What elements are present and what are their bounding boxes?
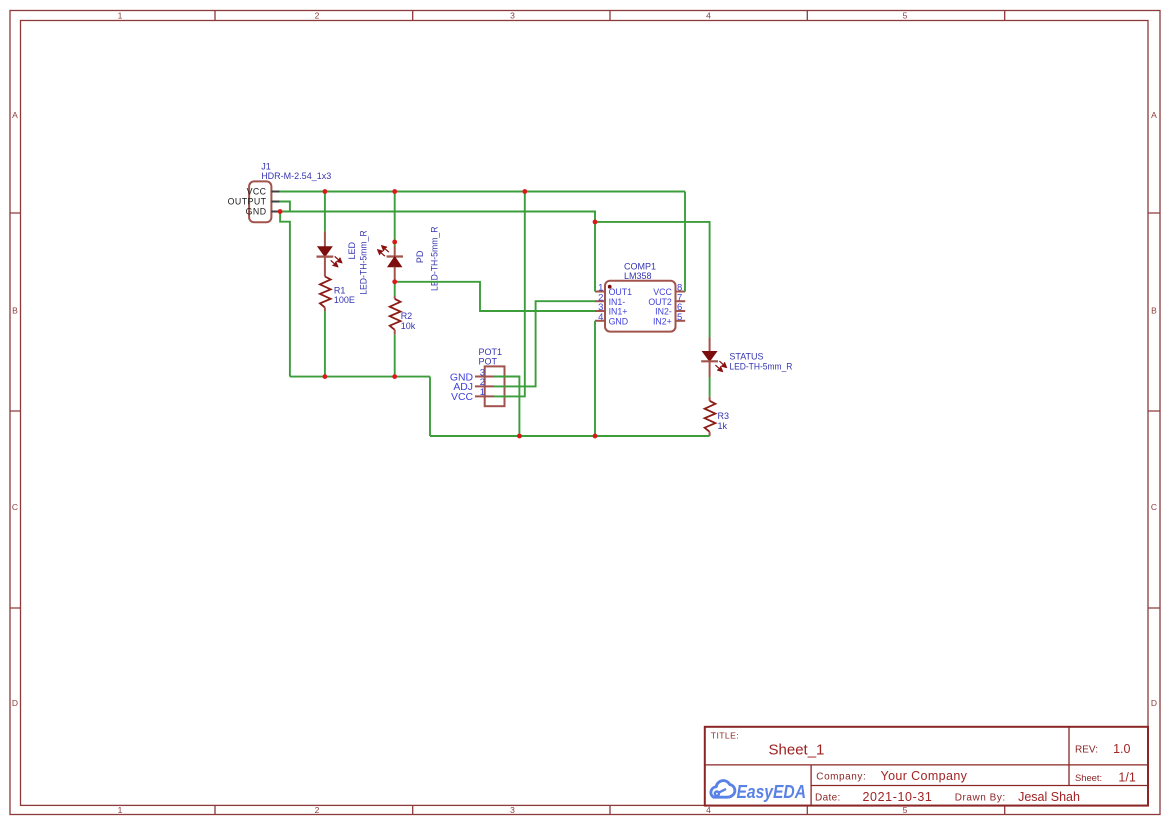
svg-text:1/1: 1/1 [1118, 771, 1135, 785]
wire OUT1 to STATUS LED [595, 222, 710, 338]
svg-text:OUT2: OUT2 [648, 297, 672, 307]
potentiometer POT1 POT [450, 347, 505, 406]
svg-text:J1: J1 [261, 161, 271, 171]
pin 6 [676, 310, 686, 312]
svg-text:D: D [1151, 698, 1157, 708]
svg-text:VCC: VCC [451, 392, 473, 403]
wire PD to R2 [394, 282, 396, 296]
svg-text:Drawn By:: Drawn By: [955, 793, 1006, 804]
resistor R1 100E [320, 257, 355, 312]
svg-text:LED-TH-5mm_R: LED-TH-5mm_R [729, 362, 792, 372]
resistor R2 10k [390, 296, 416, 335]
pin 4 [595, 320, 605, 322]
wire VCC to POT pin1 [494, 192, 525, 397]
LED STATUS LED-TH-5mm_R [701, 338, 793, 378]
node POT GND rail junction [517, 434, 522, 439]
svg-text:1: 1 [118, 805, 123, 815]
svg-text:R1: R1 [334, 286, 346, 296]
svg-text:2021-10-31: 2021-10-31 [863, 790, 933, 804]
svg-text:3: 3 [510, 11, 515, 21]
svg-text:C: C [12, 502, 18, 512]
resistor R3 1k [705, 397, 729, 436]
node COMP1 GND rail junction [593, 434, 598, 439]
svg-text:Sheet_1: Sheet_1 [769, 742, 825, 759]
svg-text:R2: R2 [401, 311, 413, 321]
svg-text:VCC: VCC [653, 287, 672, 297]
svg-text:IN2-: IN2- [655, 307, 672, 317]
svg-text:1k: 1k [718, 421, 728, 431]
svg-text:1.0: 1.0 [1113, 742, 1130, 756]
LED D-LED LED-TH-5mm_R [317, 230, 369, 295]
svg-text:4: 4 [598, 312, 603, 323]
pin 5 [676, 320, 686, 322]
wire VCC rail [280, 191, 686, 193]
wire COMP1 GND to rail [594, 321, 596, 436]
svg-text:LED-TH-5mm_R: LED-TH-5mm_R [359, 230, 369, 295]
node J1 GND junction [278, 209, 283, 214]
svg-text:A: A [12, 110, 18, 120]
svg-text:Company:: Company: [816, 772, 866, 783]
svg-text:3: 3 [510, 805, 515, 815]
svg-text:Sheet:: Sheet: [1075, 772, 1102, 783]
wire GND rail drop [429, 377, 431, 436]
svg-text:5: 5 [677, 312, 682, 323]
svg-text:Your Company: Your Company [881, 769, 968, 783]
svg-text:A: A [1151, 110, 1157, 120]
pin1 marker dot [608, 285, 612, 289]
svg-text:REV:: REV: [1075, 745, 1098, 756]
node R2/GND rail junction [392, 374, 397, 379]
svg-text:2: 2 [315, 805, 320, 815]
node VCC/PD junction [392, 189, 397, 194]
connector J1 HDR-M-2.54_1x3 [228, 161, 332, 222]
svg-text:B: B [1151, 306, 1157, 316]
wire STATUS LED to R3 [709, 377, 711, 397]
wire J1 OUTPUT jog [280, 202, 290, 212]
svg-text:COMP1: COMP1 [624, 261, 656, 271]
node PD/R2/IN1+ junction [392, 279, 397, 284]
svg-text:IN2+: IN2+ [653, 317, 672, 327]
EasyEDA logo [711, 781, 806, 802]
svg-text:D: D [12, 698, 18, 708]
svg-text:POT: POT [479, 356, 498, 366]
wire PD top [394, 192, 396, 247]
svg-text:1: 1 [118, 11, 123, 21]
svg-text:R3: R3 [718, 411, 730, 421]
node PD top junction [392, 240, 397, 245]
wire bottom GND rail [430, 435, 710, 437]
svg-text:Date:: Date: [815, 793, 841, 804]
svg-text:GND: GND [246, 207, 267, 217]
svg-text:4: 4 [706, 11, 711, 21]
wire IN1- to POT ADJ [494, 301, 595, 386]
wire POT GND to rail [494, 377, 519, 437]
pin 7 [676, 300, 686, 302]
wire PD to IN1+ [395, 282, 595, 311]
photodiode PD LED-TH-5mm_R [376, 226, 440, 291]
svg-text:5: 5 [903, 11, 908, 21]
wire J1 GND down [280, 212, 290, 377]
svg-text:Jesal Shah: Jesal Shah [1018, 790, 1080, 804]
wire R2 to GND rail [394, 335, 396, 377]
pin 8 [676, 291, 686, 293]
svg-text:B: B [12, 306, 18, 316]
svg-text:OUT1: OUT1 [609, 287, 633, 297]
pin 2 [595, 300, 605, 302]
svg-text:IN1+: IN1+ [609, 307, 628, 317]
svg-text:LED: LED [347, 241, 357, 259]
svg-text:GND: GND [609, 317, 629, 327]
svg-text:TITLE:: TITLE: [711, 730, 739, 740]
wire left GND rail [290, 376, 430, 378]
svg-text:POT1: POT1 [479, 347, 503, 357]
svg-text:100E: 100E [334, 295, 355, 305]
wire R1 to GND rail [324, 311, 326, 376]
node VCC/POT junction [522, 189, 527, 194]
svg-text:PD: PD [415, 250, 425, 263]
svg-text:EasyEDA: EasyEDA [737, 781, 807, 802]
op-amp COMP1 LM358 [595, 261, 685, 331]
wire LED anode [324, 192, 326, 232]
node R1/GND rail junction [323, 374, 328, 379]
svg-text:HDR-M-2.54_1x3: HDR-M-2.54_1x3 [261, 171, 331, 181]
svg-text:1: 1 [480, 387, 485, 398]
wire OUTPUT net to COMP1 OUT1 [280, 212, 595, 292]
svg-text:10k: 10k [401, 321, 416, 331]
node VCC/LED junction [323, 189, 328, 194]
svg-text:2: 2 [315, 11, 320, 21]
svg-text:VCC: VCC [247, 187, 267, 197]
wire VCC to COMP1 pin8 [684, 192, 686, 292]
svg-text:IN1-: IN1- [609, 297, 626, 307]
pin 1 [595, 291, 605, 293]
svg-text:C: C [1151, 502, 1157, 512]
node OUT1/STATUS junction [593, 220, 598, 225]
pin 3 [595, 310, 605, 312]
svg-text:LM358: LM358 [624, 271, 652, 281]
svg-text:STATUS: STATUS [729, 352, 763, 362]
svg-text:OUTPUT: OUTPUT [228, 197, 267, 207]
